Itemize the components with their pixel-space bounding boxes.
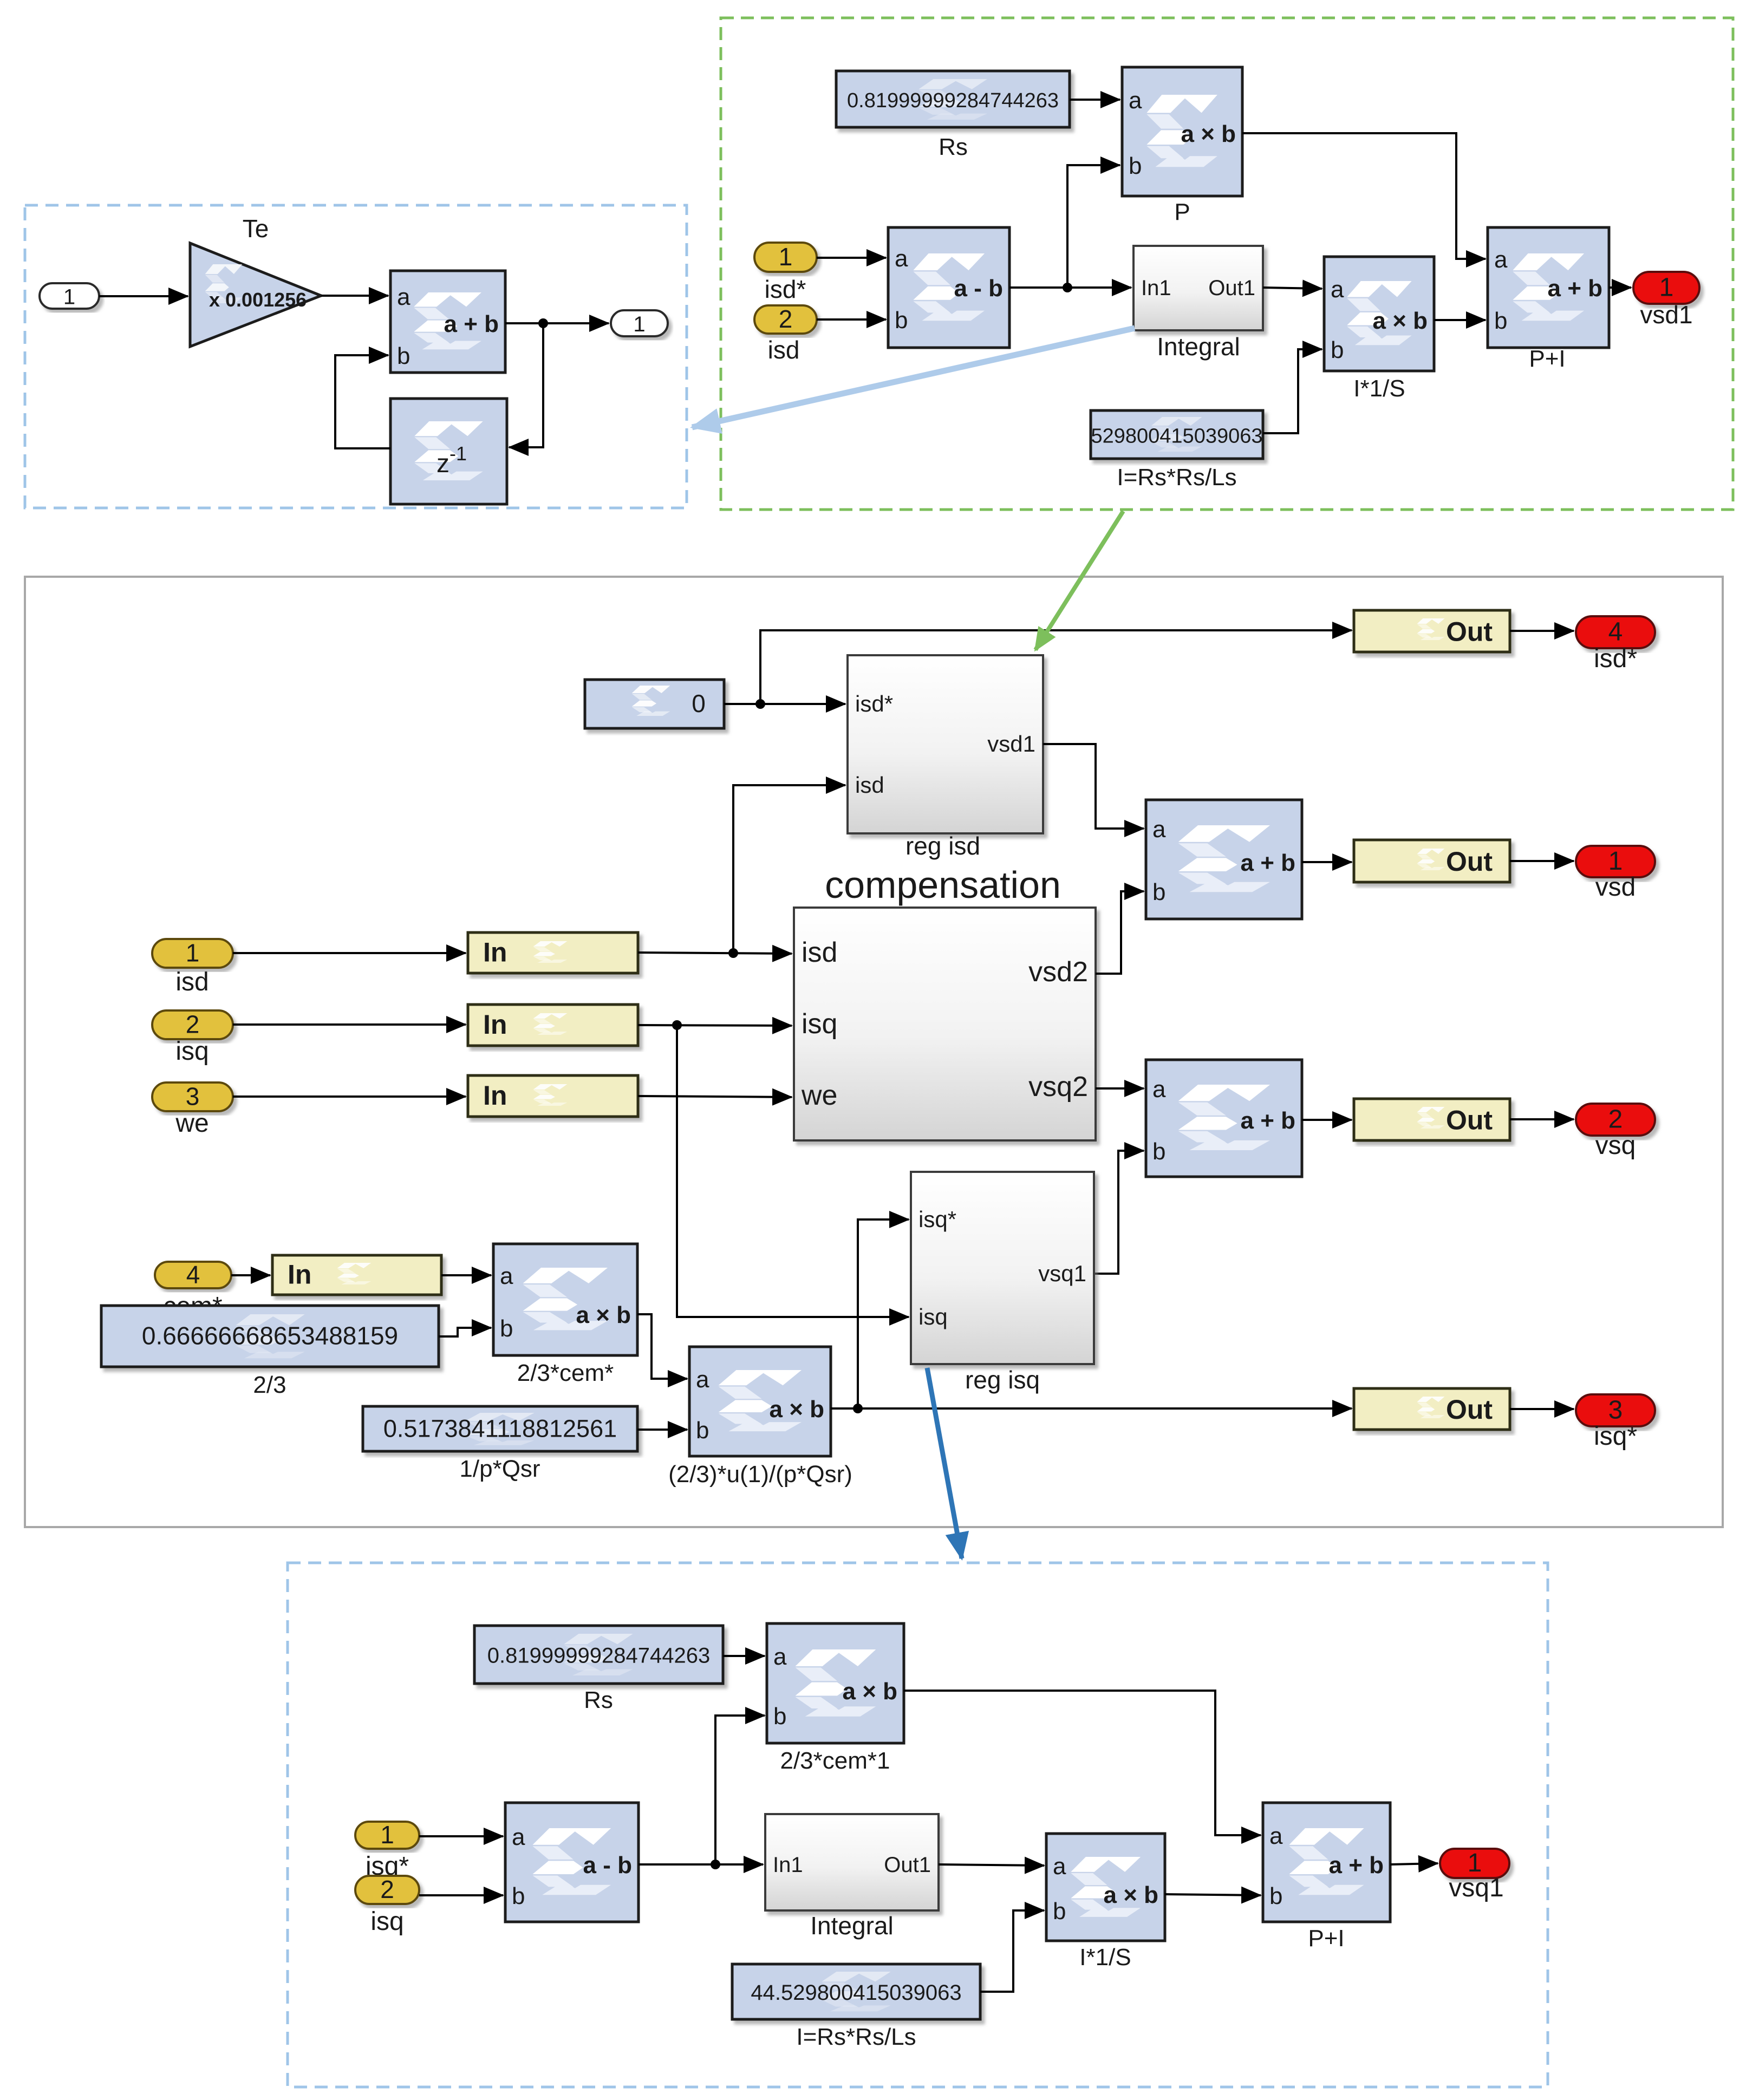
wire isq to adder b [419, 1894, 503, 1896]
output port 1 (oval) [611, 310, 668, 336]
svg-text:2/3: 2/3 [253, 1372, 286, 1398]
svg-text:a: a [1152, 816, 1166, 843]
constant 0 block [585, 680, 724, 728]
wire P+I out to vsd1 [1609, 286, 1631, 289]
constant Rs bottom (0.81999999284744263) [474, 1626, 723, 1684]
In block (we) [468, 1075, 638, 1117]
multiplier (2/3)*u(1)/(p*Qsr) [668, 1347, 852, 1488]
wire I*1/S out to P+I b [1434, 319, 1486, 321]
svg-text:a × b: a × b [1373, 308, 1428, 334]
svg-text:a + b: a + b [1241, 1107, 1296, 1134]
svg-text:In1: In1 [1141, 276, 1171, 300]
wire cem* to In block [231, 1274, 270, 1276]
wire I*1/S out to P+I b [1165, 1894, 1261, 1895]
svg-text:4: 4 [186, 1261, 200, 1289]
svg-text:a: a [512, 1824, 525, 1850]
svg-text:1: 1 [63, 285, 75, 309]
svg-text:a + b: a + b [1548, 275, 1603, 302]
svg-text:vsq1: vsq1 [1038, 1261, 1086, 1286]
multiplier P (a x b) [1122, 67, 1242, 225]
svg-text:a: a [1494, 246, 1508, 273]
wire junction up to P input b [1067, 165, 1120, 288]
svg-text:b: b [1129, 153, 1142, 179]
output port 1 vsd1 (red) [1633, 272, 1699, 304]
svg-text:b: b [1331, 337, 1344, 363]
svg-text:isd*: isd* [855, 691, 893, 716]
svg-text:we: we [175, 1109, 209, 1138]
svg-text:a: a [1053, 1853, 1066, 1880]
svg-text:I=Rs*Rs/Ls: I=Rs*Rs/Ls [796, 2024, 916, 2050]
svg-text:1: 1 [1608, 847, 1623, 876]
svg-text:Rs: Rs [584, 1687, 613, 1713]
svg-text:a × b: a × b [576, 1302, 631, 1328]
junction on isq* command wire [853, 1404, 863, 1413]
svg-text:a × b: a × b [1104, 1882, 1159, 1908]
svg-text:44.529800415039063: 44.529800415039063 [751, 1981, 961, 2005]
input port 4 cem* (yellow) [155, 1261, 231, 1289]
svg-text:a × b: a × b [770, 1396, 825, 1423]
svg-text:isd: isd [175, 968, 209, 996]
svg-text:a + b: a + b [1329, 1852, 1384, 1879]
input port 1 isd* (yellow) [754, 243, 817, 272]
svg-text:b: b [512, 1883, 525, 1909]
svg-text:a: a [895, 245, 908, 272]
Out block (vsq) [1354, 1099, 1510, 1140]
wire compensation vsd2 to adder vsd b [1096, 891, 1144, 974]
svg-text:0: 0 [692, 689, 706, 718]
wire isq to In block [233, 1023, 466, 1026]
wire constant to I*1/S b [1263, 349, 1322, 433]
output port 1 vsq1 (red) [1440, 1849, 1509, 1878]
junction on isq wire [672, 1020, 682, 1030]
wire isq* to adder a [419, 1835, 503, 1837]
svg-text:4: 4 [1608, 618, 1623, 647]
wire Integral Out1 to I*1/S a [1263, 288, 1322, 289]
subsystem reg isd [848, 655, 1043, 833]
svg-text:Rs: Rs [939, 134, 968, 160]
callout arrow green (reg isd to detail box) [1035, 511, 1123, 650]
svg-text:0.81999999284744263: 0.81999999284744263 [847, 89, 1059, 112]
junction on adder output [538, 318, 548, 328]
wire isd to adder b [817, 318, 886, 321]
input port 3 we (yellow) [152, 1082, 233, 1112]
svg-text:a × b: a × b [843, 1678, 898, 1705]
wire Rs to mult 2/3*cem*1 a [723, 1655, 765, 1657]
wire Rs to multiplier P input a [1070, 99, 1120, 101]
output port 1 vsd (red) [1576, 846, 1655, 877]
wire reg isq vsq1 to adder vsq b [1094, 1151, 1144, 1274]
svg-text:we: we [801, 1080, 837, 1111]
svg-text:isd: isd [768, 336, 800, 364]
wire mult 2/3*cem*1 out to P+I a [904, 1691, 1261, 1835]
wire adder out to Integral [639, 1863, 763, 1866]
adder P+I [1488, 227, 1609, 372]
svg-text:a: a [500, 1263, 513, 1289]
wire junction up to reg isq isq* [858, 1219, 909, 1408]
svg-text:isq*: isq* [918, 1206, 956, 1232]
svg-text:vsd1: vsd1 [1640, 301, 1692, 329]
adder a-b (isd error) [888, 227, 1009, 348]
svg-text:a × b: a × b [1181, 121, 1236, 147]
svg-text:isq*: isq* [1594, 1422, 1637, 1451]
wire we to In block [233, 1095, 466, 1098]
svg-text:In: In [483, 1009, 507, 1040]
svg-text:Te: Te [243, 214, 269, 243]
Integral block [1133, 246, 1263, 330]
svg-text:2/3*cem*1: 2/3*cem*1 [780, 1747, 890, 1774]
svg-text:isd*: isd* [765, 275, 806, 303]
svg-text:vsq: vsq [1595, 1131, 1636, 1160]
wire mult 2/3*cem* out to big mult a [637, 1314, 687, 1379]
adder vsd (a+b) [1146, 800, 1302, 919]
svg-text:0.66666668653488159: 0.66666668653488159 [142, 1322, 398, 1350]
wire junction up to Out isd* [760, 630, 1352, 704]
svg-text:I*1/S: I*1/S [1079, 1944, 1131, 1971]
svg-text:isq: isq [918, 1304, 948, 1329]
In block (isq) [468, 1005, 638, 1046]
constant I=Rs*Rs/Ls (44.52...) [1091, 410, 1263, 459]
svg-text:1: 1 [779, 243, 793, 271]
svg-text:(2/3)*u(1)/(p*Qsr): (2/3)*u(1)/(p*Qsr) [668, 1461, 852, 1488]
svg-text:Out1: Out1 [884, 1853, 931, 1877]
svg-text:Integral: Integral [810, 1912, 893, 1940]
svg-text:529800415039063: 529800415039063 [1091, 425, 1262, 448]
wire gain Te to adder a [321, 295, 388, 297]
wire isd to In block [233, 952, 466, 954]
subsystem compensation [794, 908, 1096, 1140]
constant Rs (0.81999999284744263) [836, 71, 1070, 127]
svg-text:b: b [1152, 1138, 1165, 1165]
svg-text:P: P [1174, 199, 1190, 225]
svg-text:I*1/S: I*1/S [1353, 375, 1405, 402]
multiplier 2/3*cem*1 [767, 1623, 904, 1774]
svg-text:Out: Out [1446, 617, 1493, 647]
svg-text:a: a [1152, 1076, 1166, 1103]
svg-text:a: a [1129, 87, 1142, 114]
delay block z^-1 [390, 399, 507, 504]
svg-text:isd: isd [802, 937, 837, 968]
multiplier I*1/S [1324, 257, 1434, 402]
svg-text:b: b [696, 1417, 709, 1444]
svg-text:0.81999999284744263: 0.81999999284744263 [487, 1644, 711, 1668]
svg-text:x 0.001256: x 0.001256 [209, 289, 307, 311]
svg-text:b: b [1494, 308, 1507, 334]
Out block (isd*) [1354, 610, 1510, 652]
wire In isd to compensation [638, 953, 792, 954]
svg-text:a: a [696, 1366, 709, 1393]
wire junction up to reg isd isd [733, 785, 845, 953]
svg-text:vsd: vsd [1595, 873, 1636, 902]
wire Out to port2 vsq [1510, 1118, 1574, 1120]
svg-text:isd*: isd* [1594, 644, 1637, 673]
svg-text:3: 3 [1608, 1396, 1623, 1425]
wire adder vsd to Out [1302, 861, 1352, 863]
In block (cem*) [272, 1255, 441, 1295]
wire delay out feedback to adder b [335, 355, 390, 448]
svg-text:vsd1: vsd1 [987, 731, 1035, 756]
junction on error wire [1063, 283, 1072, 292]
wire adder vsq to Out [1302, 1119, 1352, 1121]
svg-text:Out1: Out1 [1208, 276, 1255, 300]
svg-text:2: 2 [779, 305, 793, 333]
main system boundary box [25, 577, 1723, 1527]
svg-text:a: a [1269, 1823, 1283, 1849]
output port 2 vsq (red) [1576, 1104, 1655, 1136]
wire In we to compensation [638, 1096, 792, 1097]
svg-text:P+I: P+I [1308, 1925, 1344, 1952]
svg-text:b: b [1053, 1898, 1066, 1925]
wire Out to port1 vsd [1510, 860, 1574, 862]
adder a-b (isq error) [505, 1803, 639, 1922]
svg-text:vsq1: vsq1 [1449, 1874, 1503, 1902]
gain block Te (x 0.001256) [190, 243, 321, 347]
svg-text:b: b [1269, 1883, 1282, 1909]
svg-text:P+I: P+I [1529, 345, 1565, 372]
svg-text:reg isq: reg isq [965, 1366, 1040, 1394]
output port 4 isd* (red) [1576, 616, 1655, 648]
svg-text:a + b: a + b [1241, 850, 1296, 876]
svg-text:2/3*cem*: 2/3*cem* [517, 1360, 614, 1386]
svg-text:1: 1 [380, 1821, 394, 1849]
svg-text:2: 2 [186, 1010, 200, 1039]
multiplier I*1/S bottom [1046, 1834, 1165, 1971]
svg-text:a + b: a + b [444, 311, 499, 337]
svg-text:1: 1 [633, 312, 645, 336]
wire isd* to adder a [817, 257, 886, 259]
adder vsq (a+b) [1146, 1060, 1302, 1177]
svg-text:1: 1 [186, 939, 200, 967]
input port 1 isq* (yellow) [355, 1821, 419, 1849]
svg-text:1/p*Qsr: 1/p*Qsr [459, 1456, 540, 1482]
wire In cem* to mult a [441, 1274, 491, 1276]
junction on isq error wire [711, 1860, 720, 1869]
svg-text:a - b: a - b [954, 275, 1003, 302]
svg-text:reg isd: reg isd [905, 832, 980, 860]
svg-text:b: b [500, 1315, 513, 1342]
wire junction down to reg isq isq [677, 1025, 909, 1317]
svg-text:0.5173841118812561: 0.5173841118812561 [383, 1415, 617, 1443]
wire Integral to I*1/S a [939, 1864, 1044, 1866]
svg-text:isq: isq [802, 1008, 837, 1040]
svg-text:2: 2 [1608, 1105, 1623, 1134]
svg-text:vsd2: vsd2 [1028, 956, 1088, 988]
svg-text:a: a [1331, 276, 1344, 303]
wire P out to P+I a [1242, 133, 1486, 259]
junction on isd wire [728, 948, 738, 958]
dashed boundary box 2 (reg isd detail, green) [721, 18, 1733, 510]
Out block (vsd) [1354, 840, 1510, 882]
wire big mult out to Out isq* [831, 1407, 1352, 1410]
input port 2 isq (yellow) [152, 1010, 233, 1040]
svg-text:a - b: a - b [583, 1852, 632, 1879]
svg-text:1: 1 [1659, 273, 1674, 302]
wire adder out to output 1 [505, 322, 609, 324]
wire adder a-b out to Integral [1009, 286, 1131, 289]
svg-text:In1: In1 [773, 1853, 803, 1877]
svg-text:b: b [895, 307, 908, 334]
svg-text:a: a [397, 284, 411, 310]
dashed boundary box 3 (reg isq detail) [288, 1563, 1548, 2087]
svg-text:compensation: compensation [825, 864, 1061, 906]
svg-text:vsq2: vsq2 [1028, 1071, 1088, 1103]
junction on isd* wire [755, 699, 765, 709]
svg-text:Integral: Integral [1157, 332, 1240, 361]
subsystem reg isq [911, 1172, 1094, 1364]
wire junction up to mult b [715, 1716, 765, 1864]
svg-text:In: In [288, 1260, 311, 1290]
constant 2/3 (0.66666668653488159) [101, 1306, 439, 1367]
wire compensation vsq2 to adder vsq a [1096, 1087, 1144, 1090]
input port 2 isq (yellow) [355, 1875, 419, 1904]
input port 2 isd (yellow) [754, 305, 817, 334]
output port 3 isq* (red) [1576, 1394, 1655, 1426]
callout arrow light blue (Integral to Te detail) [692, 328, 1135, 427]
svg-text:isd: isd [855, 772, 884, 798]
wire input1 to gain Te [99, 295, 188, 297]
wire Out block to port4 [1510, 630, 1574, 632]
wire constant0 to reg isd isd* [724, 703, 845, 705]
callout arrow blue (reg isq to detail box) [927, 1368, 962, 1558]
input port 1 isd (yellow) [152, 939, 233, 968]
svg-text:I=Rs*Rs/Ls: I=Rs*Rs/Ls [1117, 464, 1236, 491]
input port 1 (oval) [40, 283, 99, 309]
constant 1/p*Qsr (0.5173841118812561) [363, 1406, 637, 1451]
constant I=Rs*Rs/Ls bottom [732, 1964, 980, 2019]
wire Out to port3 isq* [1510, 1408, 1574, 1410]
wire junction down to delay input [509, 323, 543, 447]
svg-text:Out: Out [1446, 1105, 1493, 1136]
svg-text:In: In [483, 1080, 507, 1111]
svg-text:a: a [773, 1644, 787, 1670]
Integral block bottom [765, 1814, 939, 1910]
svg-text:In: In [483, 937, 507, 968]
wire P+I out to vsq1 [1390, 1863, 1438, 1864]
svg-text:isq: isq [175, 1037, 209, 1066]
wire reg isd vsd1 to adder vsd a [1043, 744, 1144, 829]
dashed boundary box 1 (Te accumulator detail) [25, 205, 687, 508]
svg-text:b: b [773, 1703, 786, 1730]
wire constant to I*1/S b [980, 1910, 1044, 1992]
In block (isd) [468, 932, 638, 973]
svg-text:3: 3 [186, 1082, 200, 1111]
wire In isq to compensation [638, 1025, 792, 1026]
adder a+b (accumulator) [390, 271, 505, 373]
wire constant 2/3 to mult b [439, 1328, 491, 1336]
adder P+I bottom [1263, 1803, 1390, 1952]
multiplier 2/3*cem* [493, 1244, 637, 1386]
Out block (isq*) [1354, 1388, 1510, 1430]
svg-text:b: b [397, 343, 410, 369]
svg-text:Out: Out [1446, 846, 1493, 877]
wire constant 1/p*Qsr to big mult b [637, 1429, 687, 1431]
svg-text:Out: Out [1446, 1394, 1493, 1425]
svg-text:isq: isq [370, 1907, 403, 1936]
svg-text:b: b [1152, 879, 1165, 905]
svg-text:2: 2 [380, 1875, 394, 1903]
